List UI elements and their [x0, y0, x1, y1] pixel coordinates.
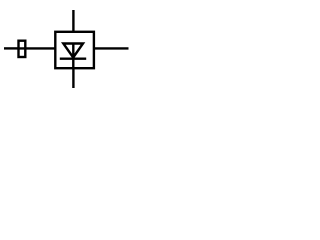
- component outline box: [55, 32, 94, 68]
- wire: [72, 10, 74, 33]
- wire: [72, 68, 74, 88]
- fuse: [19, 41, 26, 57]
- wire: [72, 44, 74, 69]
- wire: [4, 47, 19, 49]
- diode: [60, 44, 86, 59]
- wire: [19, 47, 55, 49]
- wire: [94, 47, 129, 49]
